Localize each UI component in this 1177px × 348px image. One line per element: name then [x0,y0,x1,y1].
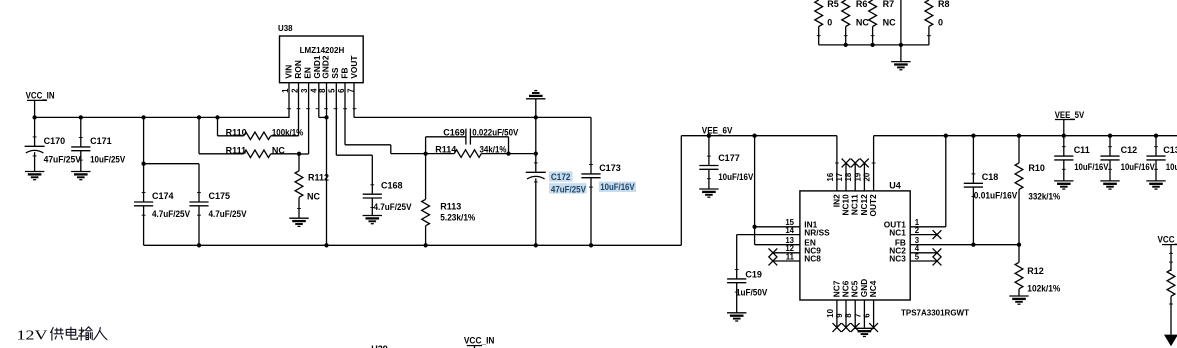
wire U38 pin2 RON lead [298,83,300,136]
svg-text:0: 0 [827,17,832,27]
wire U38 pin6 FB lead [345,83,426,154]
svg-text:R7: R7 [883,0,895,9]
resistor R110 [218,117,304,139]
wire U38 pin7 VOUT lead [353,83,355,118]
svg-text:100k/1%: 100k/1% [272,127,303,137]
svg-text:NC: NC [856,17,869,27]
resistor R112 [295,154,329,218]
svg-text:C174: C174 [152,191,174,201]
ground at C168 [363,216,382,224]
wire R5-R8 bus [819,44,929,46]
svg-text:VCC_5: VCC_5 [1158,235,1177,245]
resistor R12 [1015,245,1060,296]
svg-text:10uF/16V: 10uF/16V [600,182,634,192]
ground at C171 [71,172,90,180]
svg-text:EN: EN [302,67,312,79]
ground at C11 [1054,181,1073,189]
no-connect X pin6 [869,323,878,332]
svg-text:R5: R5 [827,0,839,9]
svg-text:0.01uF/16V: 0.01uF/16V [974,191,1018,201]
svg-text:NR/SS: NR/SS [804,227,830,237]
capacitor C168 [363,155,412,215]
node bottom at C175 [197,243,201,247]
resistor right edge [1167,270,1175,335]
wire bottom rail riser to VEE_6V [681,136,837,246]
svg-text:R113: R113 [440,201,461,211]
node bottom at GND2 [324,243,328,247]
svg-text:C18: C18 [982,172,999,182]
svg-text:10uF/16V: 10uF/16V [1074,162,1108,172]
ground at R5-R8 bus [891,62,910,70]
wire FB lead row [910,244,1019,246]
ground at C19 [727,313,746,321]
svg-text:1uF/50V: 1uF/50V [736,287,767,297]
U4 right pin numbers [915,218,920,261]
wire vertical from top edge [900,0,902,62]
node bottom at R113 [423,243,427,247]
no-connect X pin5 [933,257,942,266]
power flag VCC_ (clipped) [1158,235,1177,272]
svg-text:U4: U4 [889,180,901,190]
wire EN lead [755,244,800,246]
svg-text:VIN: VIN [283,65,293,79]
wire U38 pin8 GND2 to bottom rail [326,83,328,246]
resistor R6 [842,0,870,45]
svg-text:R111: R111 [226,146,247,156]
svg-text:C169: C169 [443,127,465,137]
svg-text:34k/1%: 34k/1% [480,144,507,154]
svg-text:OUT2: OUT2 [868,194,878,217]
node bus at R6 [844,43,848,47]
svg-text:C19: C19 [745,269,762,279]
no-connect X pin18 [851,159,860,168]
node VEE_5V at C18 [971,134,975,138]
ground at U4 GND pin7 [855,328,874,336]
svg-text:C175: C175 [209,191,231,201]
wire IN1 lead [755,226,800,228]
op-amp U38 box [280,36,364,83]
svg-text:VOUT: VOUT [349,56,359,79]
wire GND rail from VOUT [354,116,591,118]
svg-text:R10: R10 [1028,163,1045,173]
resistor R114 [426,144,509,157]
capacitor C172 [526,117,546,245]
label C173 value highlighted [599,182,636,192]
resistor R7 [869,0,896,45]
node bus at ground stem [899,43,903,47]
wire OUT1 lead [910,136,946,227]
node bottom at C172 [534,243,538,247]
resistor R111 [199,117,299,157]
wire U38 pin1 VIN lead [288,83,290,118]
svg-text:4.7uF/25V: 4.7uF/25V [152,209,190,219]
svg-text:C171: C171 [90,136,112,146]
ground at R112 [289,218,308,226]
node VCC_IN at C174 riser [141,115,145,119]
wire C174/C175 riser [144,117,199,163]
no-connect X pin9 [842,323,851,332]
svg-text:0.022uF/50V: 0.022uF/50V [472,127,518,137]
node VEE_5V at C13 [1154,134,1158,138]
node EN junction [297,152,301,156]
no-connect X pin19 [860,159,869,168]
node VEE_6V at C177 [707,134,711,138]
ground at C170 [25,172,44,180]
svg-text:R114: R114 [435,144,456,154]
svg-text:4.7uF/25V: 4.7uF/25V [374,202,412,212]
no-connect X pin8 [851,323,860,332]
node VEE_5V at C12 [1108,134,1112,138]
capacitor C19 [727,269,767,312]
svg-text:NC: NC [883,17,896,27]
power flag VEE_5V [1055,110,1085,136]
resistor R113 [422,154,476,246]
svg-text:U38: U38 [278,24,293,33]
node FB row at R113 [423,151,427,155]
svg-text:NC4: NC4 [868,280,878,297]
no-connect X pin4 [933,248,942,257]
wire NC2 stub [910,252,937,254]
wire NC9 stub [774,252,800,254]
svg-text:SS: SS [330,67,340,79]
wire IN2 riser [835,136,839,191]
ground flag flipped at C172 [526,91,545,118]
svg-text:VCC_IN: VCC_IN [26,91,55,101]
node C174 top [141,162,145,166]
label C172 value highlighted [549,183,587,194]
resistor R5 [815,0,839,45]
wire NR/SS lead to C19 [737,235,800,279]
U4 bottom pin names [831,279,878,297]
node VEE_6V at IN1 riser [752,134,756,138]
resistor R10 [1015,136,1060,245]
no-connect X pin11 [769,257,778,266]
svg-text:C12: C12 [1121,145,1138,155]
svg-text:16: 16 [826,172,835,181]
svg-text:U39: U39 [371,344,388,348]
svg-text:R12: R12 [1027,266,1044,276]
wire U38 pin5 SS lead [336,83,372,156]
svg-text:5: 5 [915,252,920,261]
U38 pin numbers [281,88,356,93]
wire VEE_5V rail [874,135,1177,137]
wire NC12 stub [863,163,865,191]
capacitor C174 [134,164,190,246]
diode right edge (clipped) [1164,335,1177,347]
U4 left pin names [804,220,830,264]
svg-text:14: 14 [785,226,794,235]
svg-text:C168: C168 [381,181,403,191]
svg-text:NC8: NC8 [804,254,821,264]
U38 pin names [283,55,359,78]
svg-text:C177: C177 [718,153,740,163]
svg-text:GND2: GND2 [320,55,330,78]
svg-text:47uF/25V: 47uF/25V [44,155,81,165]
label C172 highlighted [549,171,573,182]
svg-text:47uF/25V: 47uF/25V [551,184,586,194]
node GND rail at C172 [534,115,538,119]
node bus at R7 [870,43,874,47]
wire U38 pin4 GND1 lead [319,83,327,118]
capacitor C12 [1100,136,1155,181]
U4 bottom pin numbers [826,308,872,317]
power flag VCC_IN bottom [464,336,495,348]
node VCC_IN at C171 [79,115,83,119]
U4 right pin names [884,220,907,264]
svg-text:VEE_5V: VEE_5V [1055,110,1085,120]
svg-text:0: 0 [938,17,943,27]
capacitor C13 [1146,136,1177,181]
svg-text:NC1: NC1 [889,227,906,237]
node VCC_IN at R110 riser [215,115,219,119]
resistor R8 [925,0,950,45]
svg-text:NC: NC [307,192,320,202]
svg-text:C13: C13 [1163,145,1177,155]
svg-text:10uF/16V: 10uF/16V [1166,162,1177,172]
svg-text:R110: R110 [226,127,247,137]
svg-text:10uF/16V: 10uF/16V [718,172,753,182]
svg-text:332k/1%: 332k/1% [1028,192,1060,202]
svg-text:C11: C11 [1074,145,1090,155]
svg-text:LMZ14202H: LMZ14202H [300,45,345,55]
wire NC3 stub [910,260,937,262]
op-amp U4 box [800,191,910,300]
capacitor C170 [25,117,81,171]
capacitor C171 [71,117,125,171]
node bottom at C173 [589,243,593,247]
power flag VCC_IN [26,91,55,118]
node FB row at C18 [971,243,975,247]
wire VCC_IN rail [35,116,289,118]
wire VEE bottom rail [144,244,682,246]
svg-text:12V: 12V [17,328,48,343]
ground at C177 [699,189,718,197]
svg-text:10uF/16V: 10uF/16V [1121,162,1155,172]
node VEE_5V at flag/C11 [1062,134,1066,138]
svg-text:VCC_IN: VCC_IN [464,336,495,346]
node VEE_5V at R10 [1017,134,1021,138]
capacitor C11 [1054,136,1108,181]
no-connect X pin10 [833,323,842,332]
wire NC8 stub [774,260,800,262]
wire U38 pin3 EN lead [299,83,309,154]
node GND1/GND2 junction [324,115,328,119]
wire FB row to C172 column [509,153,536,155]
svg-text:5.23k/1%: 5.23k/1% [440,212,475,222]
U4 left pin numbers [785,218,794,261]
node FB row at C169 riser [506,151,510,155]
wire OUT2 riser [872,136,876,191]
capacitor C175 [189,164,246,246]
svg-text:NC: NC [272,146,285,156]
wire NC1 stub [910,234,937,236]
svg-text:FB: FB [339,68,349,79]
capacitor C18 [964,136,1018,245]
svg-text:5: 5 [328,88,337,93]
wire NC11 stub [854,163,856,191]
svg-text:10uF/25V: 10uF/25V [90,155,125,165]
svg-text:10: 10 [826,308,835,317]
node VEE_5V at OUT1 [944,134,948,138]
svg-text:RON: RON [293,60,303,78]
ground at C13 [1146,181,1165,189]
svg-text:NC3: NC3 [889,254,906,264]
no-connect X pin17 [842,159,851,168]
node VCC_IN at R111 riser [197,115,201,119]
svg-text:R6: R6 [856,0,868,9]
svg-text:VEE_6V: VEE_6V [702,125,733,135]
ground at R12 [1009,296,1028,304]
node IN1 junction [752,225,756,229]
svg-text:102k/1%: 102k/1% [1027,283,1060,293]
svg-text:TPS7A3301RGWT: TPS7A3301RGWT [901,309,969,318]
U4 bottom stubs [837,300,874,328]
no-connect X pin2 [933,230,942,239]
U38 pin lead ticks [287,108,356,110]
ground at C12 [1100,181,1119,189]
wire NC10 stub [845,163,847,191]
U4 top pin names [831,194,878,217]
no-connect X pin12 [769,248,778,257]
node FB row at R10/R12 [1017,243,1021,247]
node C172 column at FB row [534,151,538,155]
wire VEE_6V riser to IN1/EN [754,136,756,245]
svg-text:4.7uF/25V: 4.7uF/25V [209,209,247,219]
node VCC_IN at C170 [32,115,36,119]
svg-text:11: 11 [786,252,795,261]
capacitor C169 [426,127,519,153]
svg-text:C170: C170 [44,136,66,146]
svg-text:C172: C172 [551,172,571,182]
svg-text:C173: C173 [599,163,621,173]
svg-text:R8: R8 [938,0,950,9]
capacitor C173 [581,117,620,245]
capacitor C177 [699,136,753,189]
label 12V supply input (CJK) [17,327,107,344]
svg-text:3: 3 [300,88,309,93]
U4 top pin numbers [826,172,872,181]
